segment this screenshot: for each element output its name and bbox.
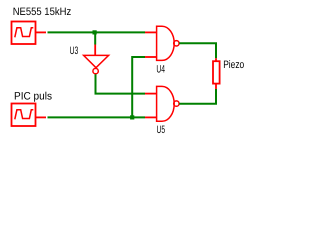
- nand U4 input pin A: [145, 31, 157, 33]
- svg-text:PIC puls: PIC puls: [14, 90, 53, 102]
- nand U5 input pin B: [145, 116, 157, 118]
- inverter U3 bubble: [93, 68, 98, 73]
- wire U5 out to piezo bottom: [179, 89, 216, 104]
- svg-text:U5: U5: [157, 124, 166, 136]
- nand U5 bubble: [174, 101, 179, 106]
- pulse source V2 waveform: [15, 110, 34, 120]
- pulse source V2 (PIC) box: [12, 104, 36, 127]
- pulse source V1 waveform: [15, 28, 34, 38]
- nand U5 input pin A: [145, 93, 157, 95]
- nand U5 body: [157, 86, 175, 121]
- inverter U3 triangle: [84, 55, 109, 67]
- piezo body: [213, 61, 220, 83]
- svg-text:U4: U4: [156, 64, 165, 76]
- nand U4 body: [157, 26, 175, 60]
- inverter U3 input pin: [94, 45, 96, 56]
- piezo bottom pin: [215, 84, 217, 89]
- pulse source V1 pin: [36, 31, 47, 33]
- wire U4 out to piezo top: [179, 43, 216, 58]
- wire NE555 out to U4 input A: [48, 31, 146, 33]
- wire PIC out to U5 input B: [48, 116, 146, 118]
- nand U4 bubble: [174, 41, 179, 46]
- wire J1 down to U3: [94, 32, 96, 44]
- pulse source V1 (NE555) box: [12, 22, 36, 45]
- svg-text:NE555 15kHz: NE555 15kHz: [13, 6, 71, 18]
- piezo top pin: [215, 58, 217, 61]
- junction J2: [130, 115, 134, 119]
- nand U4 input pin B: [145, 56, 157, 58]
- wire J2 up and right to U4 input B: [132, 57, 145, 117]
- wire U3 out down and right to U5 input A: [96, 74, 146, 93]
- svg-text:U3: U3: [70, 45, 79, 57]
- svg-text:Piezo: Piezo: [223, 59, 244, 71]
- junction J1: [93, 30, 97, 34]
- pulse source V2 pin: [36, 116, 47, 118]
